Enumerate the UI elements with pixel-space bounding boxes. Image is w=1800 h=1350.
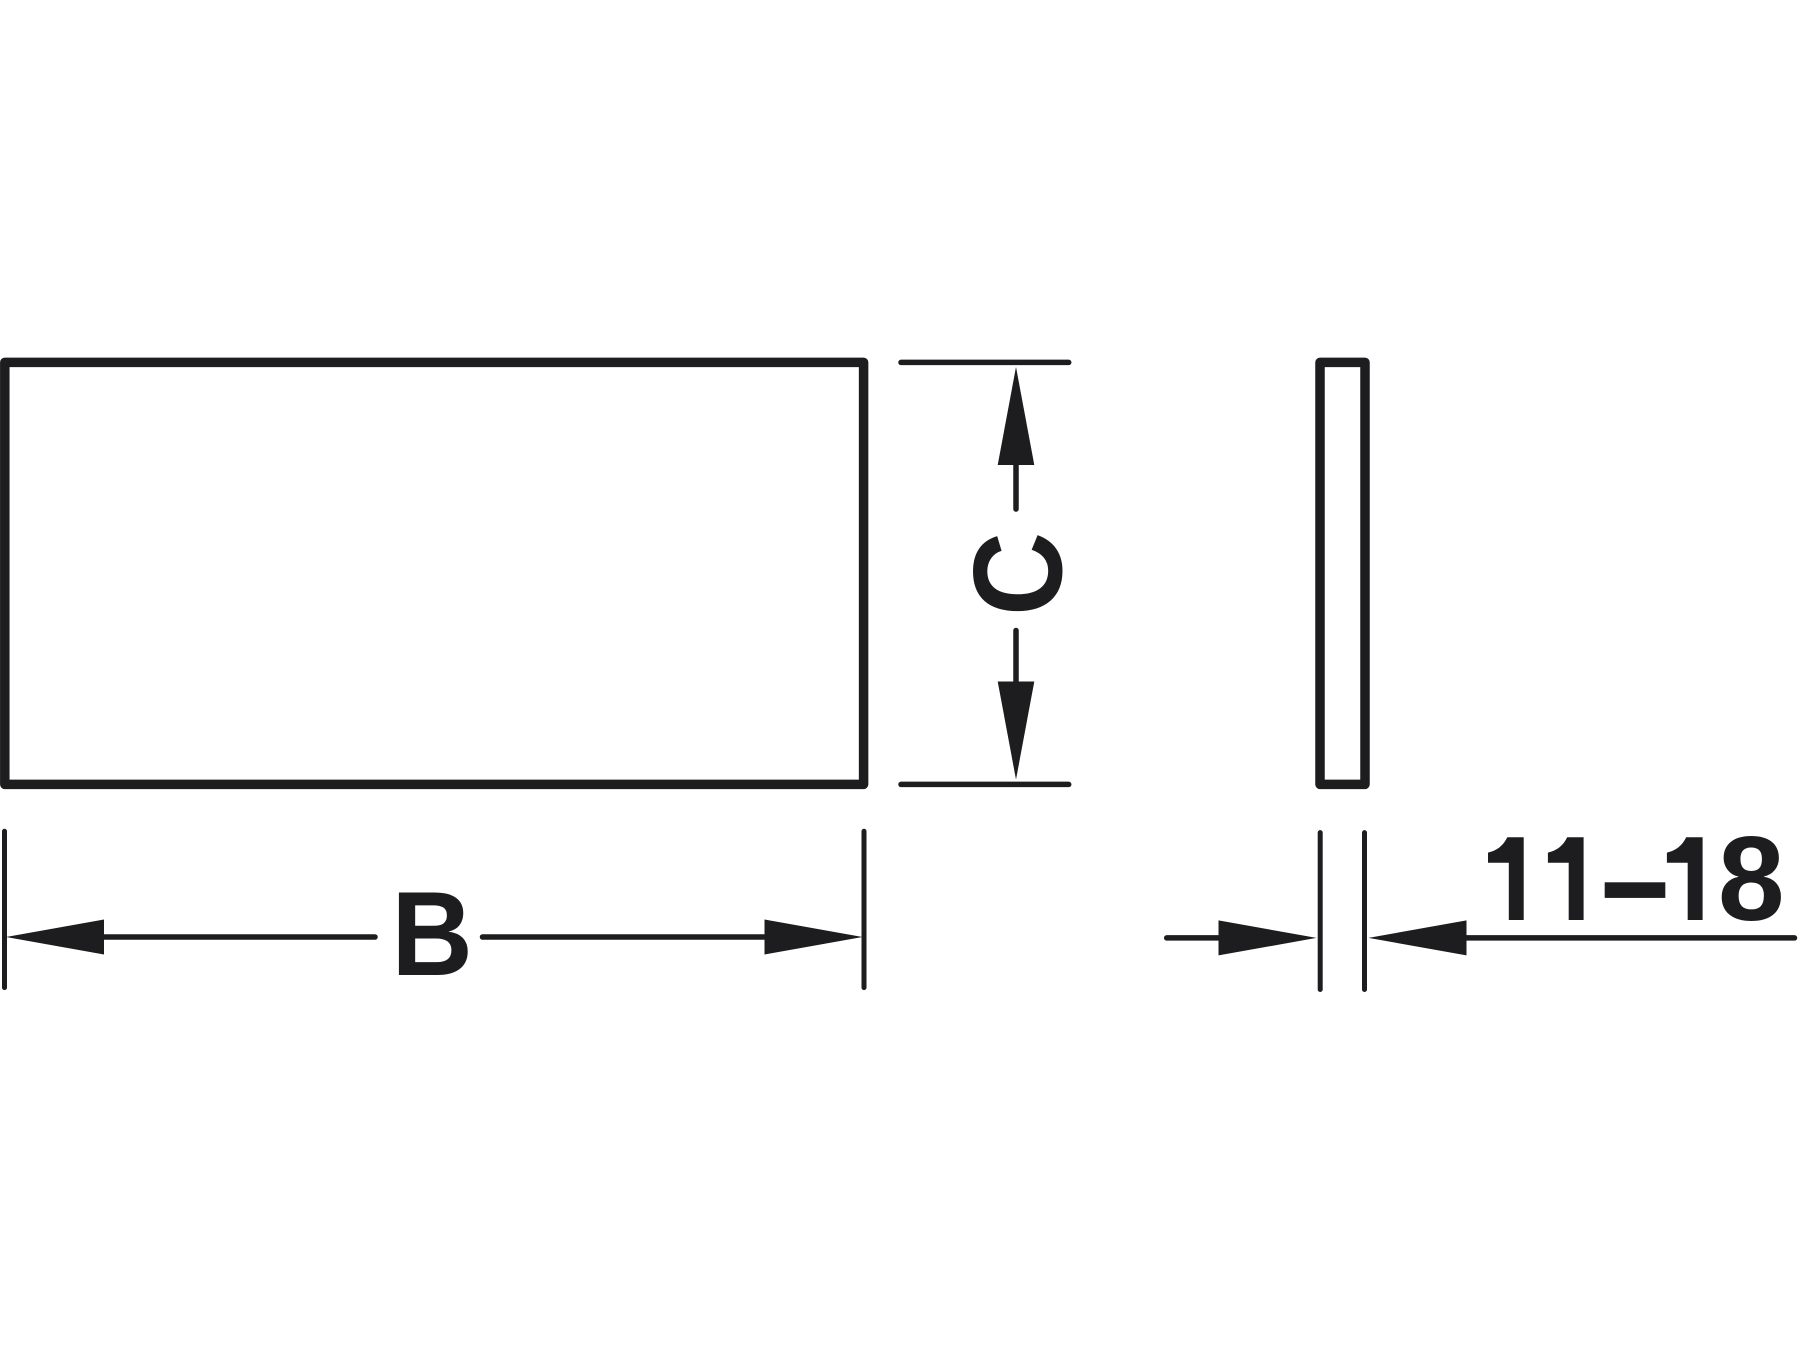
- B dimension left extension line: [2, 831, 7, 987]
- 11-18 value label: digit 1 (third): [1667, 837, 1703, 920]
- side panel rectangle: [1320, 362, 1365, 784]
- 11-18 value label: digit 1 (second): [1548, 837, 1584, 920]
- B dimension right arrowhead: [765, 920, 863, 955]
- B dimension left line segment: [104, 934, 375, 940]
- B dimension right extension line: [862, 831, 867, 987]
- svg-text:C: C: [947, 532, 1088, 616]
- C dimension lower arrowhead: [998, 682, 1035, 780]
- thickness dimension right arrowhead: [1369, 920, 1467, 955]
- C dimension bottom extension line: [901, 782, 1069, 788]
- 11-18 value label: en dash: [1605, 882, 1666, 898]
- C dimension top extension line: [901, 360, 1069, 366]
- B dimension right line segment: [483, 934, 765, 940]
- thickness dimension left leader line: [1167, 935, 1219, 941]
- thickness dimension left arrowhead: [1219, 920, 1317, 955]
- svg-text:8: 8: [1718, 812, 1785, 946]
- svg-text:B: B: [391, 867, 472, 1001]
- front panel rectangle: [5, 362, 864, 784]
- thickness dimension left extension line: [1318, 833, 1323, 990]
- B dimension left arrowhead: [6, 920, 104, 955]
- C dimension upper arrowhead: [998, 367, 1035, 465]
- thickness dimension right leader line: [1467, 935, 1795, 941]
- 11-18 value label: digit 1: [1488, 837, 1524, 920]
- thickness dimension right extension line: [1362, 833, 1367, 990]
- C dimension lower line segment: [1013, 631, 1019, 682]
- C dimension upper line segment: [1013, 464, 1019, 509]
